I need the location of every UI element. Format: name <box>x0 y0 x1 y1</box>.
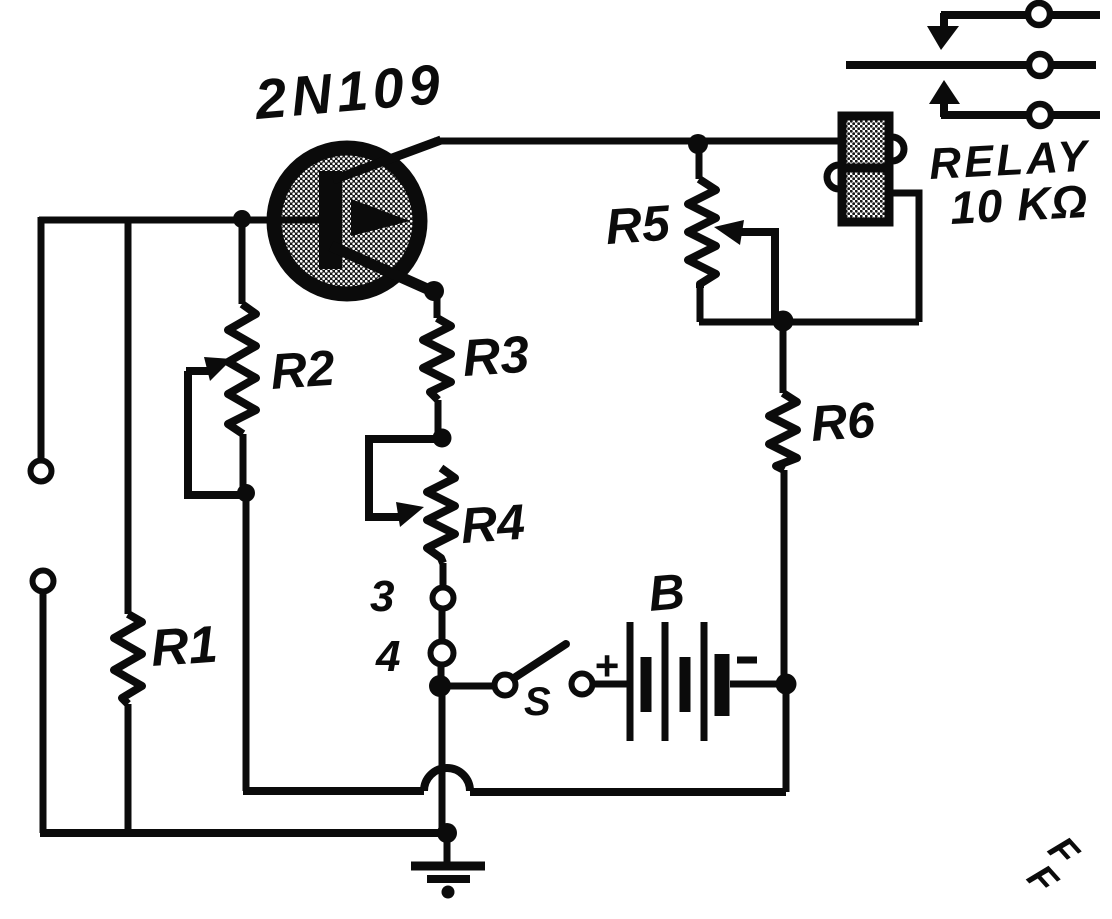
junction dot R5/R6 <box>773 311 794 332</box>
wire right rail corner <box>783 684 790 792</box>
terminal T2 <box>33 571 54 592</box>
svg-text:S: S <box>524 680 551 724</box>
wire R5 top lead <box>696 144 703 179</box>
wire R3 bottom lead <box>435 400 442 438</box>
resistor R6 <box>769 393 797 470</box>
junction dot battery/R6 <box>776 674 797 695</box>
transistor Q1 emitter stroke <box>331 246 434 292</box>
transistor Q1 body <box>274 148 420 294</box>
svg-text:10 KΩ: 10 KΩ <box>949 175 1090 234</box>
potentiometer R4 wiper arrowhead <box>396 502 424 527</box>
relay contact common line <box>846 61 1096 69</box>
relay contact common circle <box>1029 54 1051 76</box>
junction dot ground node <box>437 823 457 843</box>
terminal T1 <box>31 461 52 482</box>
junction dot R2 bottom <box>237 484 255 502</box>
svg-text:R5: R5 <box>604 195 673 255</box>
wire R1 top lead <box>125 217 132 614</box>
switch S arm <box>514 644 566 678</box>
potentiometer R2 wiper arm <box>186 367 210 375</box>
potentiometer R5 wiper arm <box>728 232 775 322</box>
svg-text:R6: R6 <box>809 392 878 452</box>
wire emitter down to R3 <box>434 290 441 318</box>
resistor R2 <box>228 304 256 434</box>
relay contact bottom line <box>941 111 1100 119</box>
label minus <box>737 657 757 664</box>
resistor R5 <box>688 179 716 288</box>
node 3 terminal <box>433 588 454 609</box>
wire left vertical to terminal T1 <box>38 217 45 459</box>
battery B plate short 3 wide <box>715 654 730 716</box>
wire bottom rail upper left <box>243 787 424 795</box>
battery B plate long 1 <box>627 622 634 741</box>
node 4 terminal <box>431 642 454 665</box>
ground stem <box>444 833 451 864</box>
wire R5/R6/relay bottom bus <box>699 319 919 326</box>
svg-text:B: B <box>646 563 687 622</box>
relay coil right loop <box>892 137 904 161</box>
battery B plate long 3 <box>701 622 708 741</box>
svg-text:R1: R1 <box>149 616 219 678</box>
ground bar 1 <box>411 862 485 871</box>
resistor R4 <box>427 468 455 563</box>
relay contact top arrowhead (down) <box>927 26 959 50</box>
wire bottom rail lower <box>40 829 447 837</box>
wire terminal T2 down <box>40 593 47 833</box>
transistor Q1 base bar <box>319 171 342 269</box>
resistor R3 <box>423 318 451 400</box>
transistor Q1 collector stroke <box>333 140 441 180</box>
junction dot R3/R4 <box>433 429 452 448</box>
battery B plate short 1 <box>641 657 652 712</box>
svg-text:3: 3 <box>370 572 394 621</box>
switch S pole circle <box>495 675 516 696</box>
wire collector top rail <box>434 138 840 145</box>
battery B plate long 2 <box>662 622 669 741</box>
wire R5 bottom lead <box>697 288 704 322</box>
battery B plate short 2 <box>680 657 691 712</box>
resistor R1 <box>114 614 142 704</box>
wire hop over vertical <box>424 768 470 791</box>
potentiometer R2 link box <box>188 371 246 495</box>
svg-text:R3: R3 <box>461 326 531 389</box>
relay contact bottom arrowhead (up) <box>929 80 960 104</box>
junction dot base/R2 <box>233 210 251 228</box>
wire to ground junction <box>439 686 446 833</box>
wire R2 bottom lead <box>240 434 247 493</box>
wire base inside transistor <box>274 217 322 224</box>
potentiometer R5 wiper arrowhead <box>714 220 744 245</box>
wire R2 top lead <box>239 219 246 304</box>
transistor emitter blob <box>424 281 444 301</box>
wire + terminal to battery <box>593 681 630 688</box>
svg-text:R4: R4 <box>459 494 527 554</box>
potentiometer R4 link box <box>369 439 442 517</box>
wire battery to right rail <box>730 681 786 688</box>
relay contact top line <box>941 11 1100 19</box>
svg-text:R2: R2 <box>269 340 337 400</box>
svg-text:4: 4 <box>375 632 400 681</box>
relay coil exit wire <box>890 193 919 322</box>
wire R2 junction down <box>243 493 250 791</box>
wire node 4 to switch junction <box>438 665 445 690</box>
battery + terminal <box>572 674 593 695</box>
junction dot switch node <box>429 675 451 697</box>
relay contact bottom arrow stem <box>940 102 948 117</box>
wire base rail (left horizontal) <box>39 217 322 224</box>
wire R1 bottom lead <box>125 704 132 833</box>
wire bottom rail upper right <box>470 788 786 796</box>
wire node 3 to node 4 <box>439 609 446 641</box>
potentiometer R2 wiper arrowhead <box>204 357 232 381</box>
wire R4 to node 3 <box>440 563 447 588</box>
wire R6 bottom lead <box>781 470 788 684</box>
relay coil body <box>842 116 889 222</box>
relay coil divider <box>838 164 893 173</box>
junction dot collector/R5 <box>688 134 708 154</box>
wire R6 top lead <box>780 321 787 393</box>
relay contact top arrow stem <box>940 13 948 28</box>
ground dot <box>442 886 455 899</box>
relay contact bottom circle <box>1029 104 1051 126</box>
relay contact top circle <box>1028 3 1050 25</box>
wire switch node to switch pole <box>440 683 493 690</box>
transistor Q1 emitter arrowhead <box>351 199 410 236</box>
relay coil left loop <box>827 165 839 189</box>
ground bar 2 <box>427 875 470 883</box>
